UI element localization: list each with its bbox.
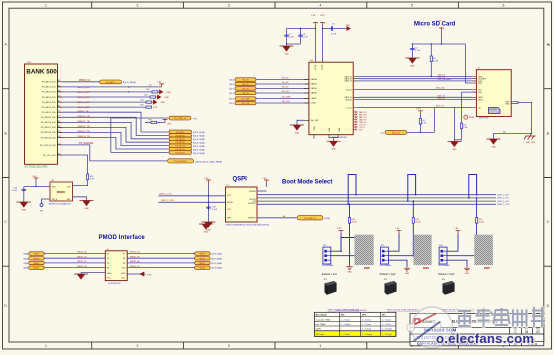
svg-text:P10: P10 [122, 268, 125, 270]
svg-text:SD_D0: SD_D0 [282, 78, 289, 80]
svg-text:2 - 3 (high): 2 - 3 (high) [362, 334, 372, 336]
wire JP3 pin3 to gnd [447, 260, 467, 266]
svg-text:DAT1A: DAT1A [311, 83, 318, 86]
svg-text:PS_MIO14: PS_MIO14 [176, 149, 185, 151]
svg-text:1.8V: 1.8V [337, 228, 342, 230]
svg-text:3: 3 [228, 344, 230, 348]
svg-text:PMOD_D1: PMOD_D1 [77, 256, 88, 258]
jumper photo 1 [324, 279, 337, 295]
svg-text:SI/IO0: SI/IO0 [227, 202, 234, 204]
svg-text:GND: GND [339, 127, 341, 132]
svg-text:E[4:1], R[4A]: E[4:1], R[4A] [193, 142, 205, 145]
svg-text:MICROSD: MICROSD [479, 118, 489, 120]
svg-text:1.8V: 1.8V [311, 15, 316, 17]
IC U4 right pin stubs [353, 77, 358, 108]
SD card icon [479, 108, 500, 120]
svg-text:1.8V: 1.8V [454, 228, 459, 230]
power 1.8V QSPI left [204, 178, 211, 222]
svg-text:Default = high: Default = high [438, 272, 455, 276]
svg-text:Default = low: Default = low [322, 272, 337, 276]
port ovals PMOD right [195, 252, 211, 270]
wire decoupling rail [287, 28, 316, 30]
svg-text:1 - 2 (low): 1 - 2 (low) [341, 319, 351, 321]
svg-text:E[4:1], R[4A]: E[4:1], R[4A] [193, 135, 205, 138]
svg-text:SHNT_ECON_PVBF-1(A),BLACK: SHNT_ECON_PVBF-1(A),BLACK [336, 309, 368, 312]
svg-text:PS_MIO4_500: PS_MIO4_500 [42, 102, 56, 104]
IC U4 left pin stubs [304, 80, 309, 121]
resistor R4 [419, 119, 427, 134]
svg-text:SD_CMD: SD_CMD [242, 99, 251, 101]
svg-text:DAT3A: DAT3A [311, 92, 318, 95]
wire stair bundle MIO9..MIO14 [62, 112, 169, 149]
svg-text:SD_D0: SD_D0 [242, 80, 248, 82]
svg-text:0.1uF: 0.1uF [212, 209, 218, 211]
net labels SD1 [436, 75, 452, 108]
IC U4 bottom GND stubs [314, 135, 341, 151]
IC U2 oscillator DSC1033 [49, 180, 73, 206]
net labels SD A-side [282, 78, 291, 104]
svg-text:E[4:1], R[4A]: E[4:1], R[4A] [193, 148, 205, 151]
wire JP3 pin2 to block [447, 255, 477, 257]
port sheet refs blue [193, 131, 205, 155]
svg-text:o.elecfans.com: o.elecfans.com [436, 331, 534, 346]
svg-text:MIO3 | QSPI: MIO3 | QSPI [78, 97, 91, 99]
svg-text:SD1_CD: SD1_CD [436, 106, 444, 108]
svg-text:P2: P2 [107, 258, 109, 260]
svg-text:Mod: Mod [536, 329, 540, 331]
svg-text:MIO13: MIO13 [200, 254, 206, 256]
svg-text:GND: GND [329, 127, 331, 132]
svg-text:GND: GND [410, 66, 415, 68]
svg-text:1.8V: 1.8V [395, 228, 400, 230]
IC U4 NC pin labels [359, 111, 367, 132]
svg-text:P4: P4 [107, 268, 109, 270]
svg-text:PS_SRST_B: PS_SRST_B [174, 118, 186, 120]
port PS_SRST_B oval [169, 116, 198, 120]
svg-text:SHD_GND: SHD_GND [526, 142, 536, 144]
svg-text:SD_D2: SD_D2 [282, 87, 289, 89]
capacitor C8 [298, 28, 308, 44]
svg-text:PEC03SAAN: PEC03SAAN [322, 264, 334, 267]
connector J1 left pin stubs [472, 77, 477, 108]
svg-text:PS_MIO12: PS_MIO12 [176, 142, 185, 144]
svg-text:PS_CLK_500: PS_CLK_500 [43, 155, 56, 157]
wire JP1 pin2 to block [331, 255, 355, 257]
svg-text:PWR: PWR [469, 117, 475, 119]
svg-text:0.1uF: 0.1uF [303, 37, 309, 39]
wire J1 VSS to gnd bundle [454, 92, 476, 140]
wire PS_CLK [62, 155, 88, 174]
svg-text:MIO15: MIO15 [200, 263, 206, 265]
wire bus QSPI/MIO line3 [257, 200, 496, 202]
svg-text:1.8V: 1.8V [157, 82, 162, 84]
svg-text:E[4:1]: E[4:1] [229, 93, 234, 95]
svg-text:RESET#: RESET# [248, 218, 257, 220]
svg-text:PMOD_D0: PMOD_D0 [77, 252, 88, 254]
wire PS_POR_B / PS_MODULE [62, 143, 167, 161]
svg-text:B7: B7 [58, 101, 60, 103]
svg-text:PMOD_D4: PMOD_D4 [130, 252, 141, 254]
IC U1 BANK 500 (Zynq PS MIO bank) [25, 62, 58, 169]
boot circuit 3 drop wire [476, 197, 478, 217]
wire MIO2 row with pulldown to GND [62, 89, 172, 94]
svg-text:CLK_B: CLK_B [346, 89, 353, 91]
svg-text:SD_CLK: SD_CLK [282, 101, 290, 103]
svg-text:PS_MIO5_500: PS_MIO5_500 [42, 107, 56, 109]
svg-text:E[4:1], R[4A]: E[4:1], R[4A] [193, 138, 205, 141]
wire osc MR / testpoint [40, 199, 50, 213]
power 1.8V oscillator supply [24, 176, 50, 187]
capacitor C30 [12, 187, 26, 203]
power 1.8V boot2 [388, 228, 401, 251]
ground J1 VSS [448, 140, 462, 151]
svg-text:VDD: VDD [478, 83, 483, 85]
wire bus QSPI/MIO line1 [257, 194, 496, 196]
svg-text:PS_MODULE: PS_MODULE [174, 161, 187, 163]
ground C2 [406, 58, 420, 68]
svg-text:QSPI_1_IO1: QSPI_1_IO1 [497, 198, 510, 200]
svg-text:S25FL128SAGNFI001 IS25LP128-: S25FL128SAGNFI001 IS25LP128-JBLE/QSPI4X [226, 223, 270, 226]
svg-text:PS_MIO0_500: PS_MIO0_500 [42, 82, 56, 84]
svg-text:2: 2 [137, 4, 139, 8]
port QSPI reset oval [297, 216, 330, 221]
svg-text:1.0K: 1.0K [422, 123, 427, 125]
wire VDD rail [412, 43, 472, 83]
svg-text:E[4:1]: E[4:1] [229, 99, 234, 101]
power 1.8V boot3 [447, 228, 460, 251]
svg-text:DNP: DNP [364, 266, 370, 270]
svg-text:3: 3 [228, 4, 230, 8]
svg-text:PS_MIO0: PS_MIO0 [106, 82, 116, 84]
port ovals PMOD left [29, 252, 45, 270]
svg-text:VCCA: VCCA [314, 64, 317, 70]
svg-text:PS_MIO14_500: PS_MIO14_500 [41, 137, 57, 139]
svg-text:4.7K: 4.7K [90, 178, 95, 180]
svg-text:ADM6315-29D4ARTZR7: ADM6315-29D4ARTZR7 [49, 203, 72, 206]
svg-text:E[4:1]: E[4:1] [229, 84, 234, 86]
shunt jumper block 2 (DNP) [414, 235, 432, 270]
svg-text:PMOD_D3: PMOD_D3 [77, 266, 88, 268]
svg-text:P8: P8 [123, 258, 125, 260]
svg-text:SD_CLK: SD_CLK [242, 103, 250, 105]
svg-text:VCCB: VCCB [322, 64, 324, 70]
IC U4 SEL wire to gnd [290, 120, 304, 134]
svg-text:E[4:1], R[4A]: E[4:1], R[4A] [193, 145, 205, 148]
svg-text:QSPI_1_CS0: QSPI_1_CS0 [161, 200, 174, 202]
svg-text:C8: C8 [58, 136, 60, 138]
ground PMOD left [74, 273, 105, 280]
svg-text:QSPI_1_IO2: QSPI_1_IO2 [497, 201, 510, 203]
svg-text:1 - 2 (low): 1 - 2 (low) [362, 329, 372, 331]
svg-text:GND: GND [405, 273, 410, 275]
wires U4 B-side to SD connector [358, 77, 472, 133]
svg-text:VDD/IO: VDD/IO [249, 191, 256, 193]
svg-text:1 - 2 (low): 1 - 2 (low) [362, 324, 372, 326]
IC U3 QSPI flash [226, 185, 270, 226]
svg-text:GND: GND [107, 273, 112, 275]
svg-text:4.7uF: 4.7uF [415, 50, 421, 52]
port refs PMOD right [212, 253, 223, 270]
wire bus QSPI/MIO line4 [257, 203, 496, 205]
wires PMOD left [44, 254, 105, 268]
testpoint TP2 oval [380, 130, 434, 134]
table text rows [316, 314, 387, 336]
svg-text:DAT0A: DAT0A [311, 78, 318, 81]
svg-text:R[4A]: R[4A] [24, 267, 29, 270]
wires PMOD right [127, 254, 194, 268]
resistor R20 [348, 218, 357, 256]
svg-text:PMOD_D6: PMOD_D6 [130, 261, 141, 263]
svg-text:QSPI: QSPI [316, 329, 322, 331]
svg-text:3.3V: 3.3V [320, 15, 325, 17]
svg-text:1 - 2 (low): 1 - 2 (low) [341, 334, 351, 336]
svg-text:20.0K: 20.0K [415, 221, 421, 223]
svg-text:R[2A]: R[2A] [325, 217, 330, 220]
svg-text:PMOD_D2: PMOD_D2 [77, 261, 88, 263]
svg-text:P3: P3 [107, 263, 109, 265]
IC U1 pin numbers [58, 80, 60, 155]
ground boot1 [346, 256, 352, 274]
port refs PMOD left [24, 253, 29, 270]
svg-text:1: 1 [45, 4, 47, 8]
svg-text:R[4A]: R[4A] [24, 257, 29, 260]
svg-text:1 - 2 (low): 1 - 2 (low) [382, 324, 392, 326]
ground boot2 [404, 266, 410, 275]
svg-text:DAT2_B: DAT2_B [344, 80, 352, 83]
svg-text:6: 6 [503, 4, 505, 8]
watermark hanzi glow [458, 307, 545, 328]
svg-text:Cascade JTAG: Cascade JTAG [316, 318, 331, 321]
svg-text:E[6:3], R[6A]: E[6:3], R[6A] [212, 253, 223, 256]
svg-text:1.8V: 1.8V [262, 178, 267, 180]
wire MIO5 row with pullup [62, 104, 158, 109]
svg-text:C6: C6 [58, 111, 60, 113]
svg-text:GND: GND [331, 149, 336, 151]
svg-text:GND: GND [161, 102, 166, 104]
resistor R7 pullup 1.8V [145, 119, 172, 125]
resistor R5 [454, 123, 468, 140]
svg-text:2 - 3 (high): 2 - 3 (high) [382, 329, 392, 331]
svg-text:QSPI_1_CLK: QSPI_1_CLK [159, 194, 172, 196]
svg-text:2 - 3 (high): 2 - 3 (high) [341, 324, 351, 326]
wire QSPI_1_CS0 [159, 200, 226, 202]
wire MIO0 row [62, 80, 100, 82]
svg-text:QSPI_1_IO3: QSPI_1_IO3 [497, 204, 510, 206]
svg-text:SD_CMD: SD_CMD [282, 97, 291, 99]
port sheet refs SD left [229, 80, 234, 106]
title text rows [416, 328, 479, 346]
svg-text:P7: P7 [123, 253, 125, 255]
svg-text:1: 1 [45, 344, 47, 348]
svg-text:1 - 2 (low): 1 - 2 (low) [362, 319, 372, 321]
svg-text:C5: C5 [58, 131, 60, 133]
svg-text:GND: GND [121, 273, 126, 275]
connector J1 micro SD [476, 68, 511, 117]
shunt jumper block 3 (DNP) [474, 235, 493, 270]
svg-text:E[6:3], R[6A]: E[6:3], R[6A] [212, 267, 223, 270]
wire hop 3 [468, 175, 477, 199]
svg-text:4: 4 [320, 344, 322, 348]
wire MIO4 row with pulldown to GND [62, 99, 166, 104]
svg-text:CMDA: CMDA [311, 97, 317, 100]
QSPI right VCC wire [257, 190, 267, 192]
svg-text:E[4:1], R[4A]: E[4:1], R[4A] [193, 152, 205, 155]
svg-text:1 - 2 (low): 1 - 2 (low) [382, 319, 392, 321]
svg-text:SD_D1: SD_D1 [282, 82, 289, 84]
capacitor C31 QSPI [206, 206, 218, 212]
svg-text:2: 2 [137, 344, 139, 348]
svg-text:PS_MIO2_500: PS_MIO2_500 [42, 92, 56, 94]
svg-text:GND: GND [165, 97, 170, 99]
ground top right of PMOD [199, 222, 213, 234]
net labels PMOD left [77, 252, 88, 268]
wire J1 GND return [494, 102, 533, 140]
svg-text:SD_D3: SD_D3 [242, 93, 248, 95]
svg-text:DM40: DM40 [57, 190, 65, 194]
svg-text:QSPI_1_IO0: QSPI_1_IO0 [497, 195, 510, 197]
capacitor C9 [323, 24, 346, 36]
svg-text:MIO5 | QSPI: MIO5 | QSPI [78, 107, 91, 109]
port PS_MIO0 oval [100, 80, 136, 84]
svg-text:DNP: DNP [423, 266, 429, 270]
boot circuit 2 drop wire [413, 200, 415, 217]
svg-text:20.0K: 20.0K [352, 221, 358, 223]
svg-text:PEC03SAAN: PEC03SAAN [438, 264, 450, 267]
svg-text:GND: GND [452, 149, 457, 151]
wire PS_SRST row [111, 118, 169, 152]
svg-text:PMOD Interface: PMOD Interface [99, 235, 146, 241]
svg-text:GND: GND [284, 54, 289, 56]
svg-text:GND: GND [295, 133, 300, 135]
svg-text:R[4A]: R[4A] [24, 262, 29, 265]
svg-text:E9: E9 [58, 126, 60, 128]
power 3.3V above level shifter [320, 15, 325, 62]
svg-text:GND: GND [505, 104, 510, 106]
svg-text:SD1_CLK: SD1_CLK [436, 88, 446, 90]
svg-text:5: 5 [411, 4, 413, 8]
svg-text:3.3V: 3.3V [416, 109, 421, 111]
svg-text:DAT1: DAT1 [478, 98, 483, 101]
svg-text:U1C: U1C [27, 62, 32, 64]
connector JP1 [322, 245, 334, 267]
svg-text:4: 4 [320, 4, 322, 8]
svg-text:E[4:1], R[4A]: E[4:1], R[4A] [123, 81, 136, 84]
svg-text:B8: B8 [58, 90, 60, 92]
port ovals SD A-side group1 [235, 78, 256, 95]
title block small cells [514, 330, 540, 334]
svg-text:CMD_B: CMD_B [345, 99, 352, 101]
svg-text:PMOD_D5: PMOD_D5 [130, 256, 141, 258]
ground osc [17, 202, 32, 212]
svg-text:D6: D6 [58, 95, 60, 97]
svg-text:GND: GND [167, 92, 172, 94]
ground QSPI cap [202, 222, 216, 232]
svg-text:E[6:3], R[6A]: E[6:3], R[6A] [212, 262, 223, 265]
svg-text:2 - 3 (high): 2 - 3 (high) [382, 334, 392, 336]
svg-text:3.3V: 3.3V [437, 21, 442, 23]
svg-text:MIO1 | QSPI: MIO1 | QSPI [78, 87, 91, 89]
wire bus QSPI/MIO line2 [257, 197, 496, 199]
svg-text:0.1uF: 0.1uF [289, 37, 295, 39]
svg-text:P1: P1 [107, 253, 109, 255]
svg-text:1.8V: 1.8V [167, 124, 172, 126]
svg-text:PS_SRST_B: PS_SRST_B [304, 218, 316, 220]
svg-text:20.0K: 20.0K [479, 221, 485, 223]
svg-text:PS_MIO9: PS_MIO9 [176, 132, 184, 134]
svg-text:E[4:1]: E[4:1] [229, 80, 234, 82]
wire MIO3 row with pulldown to GND [62, 94, 170, 99]
svg-text:GND: GND [84, 208, 89, 210]
svg-text:XC7Z020-1CLG400: XC7Z020-1CLG400 [25, 165, 48, 169]
svg-text:PS_MIO1_500: PS_MIO1_500 [42, 87, 56, 89]
jumper photo 2 [384, 279, 397, 295]
svg-text:Boot Mode: Boot Mode [316, 314, 328, 317]
svg-text:SD1_D2/CMD3: SD1_D2/CMD3 [438, 79, 453, 81]
svg-text:1.8V: 1.8V [147, 275, 152, 277]
svg-text:PS_MIO10: PS_MIO10 [176, 135, 185, 137]
svg-text:PS_MIO11: PS_MIO11 [176, 139, 185, 141]
svg-text:MIO14: MIO14 [200, 258, 206, 260]
svg-text:GND: GND [465, 273, 470, 275]
wires SD A-side to level shifter [256, 80, 309, 104]
IC U1 pin names [40, 82, 56, 157]
svg-text:PS_MODULE: PS_MODULE [79, 143, 94, 145]
resistor R22 [476, 218, 485, 256]
svg-text:C7: C7 [58, 143, 60, 145]
svg-text:A7: A7 [58, 84, 60, 87]
svg-text:PS_MIO15: PS_MIO15 [176, 152, 185, 154]
svg-text:MIO11: MIO11 [34, 263, 40, 265]
power PMOD right [127, 272, 152, 277]
ground J1 shield [487, 139, 501, 149]
svg-text:GND: GND [491, 147, 496, 149]
svg-text:Default = high: Default = high [380, 272, 397, 276]
title block [410, 314, 544, 346]
svg-text:B5: B5 [58, 121, 60, 123]
net label column MIO1-MIO4 [78, 87, 91, 109]
svg-text:E[4:1]: E[4:1] [229, 89, 234, 91]
svg-text:1.0K: 1.0K [463, 127, 468, 129]
svg-text:PS_MIO13: PS_MIO13 [176, 146, 185, 148]
svg-text:PS_POR_B_500: PS_POR_B_500 [40, 145, 56, 147]
resistor R21 [412, 218, 421, 256]
power 1.8V above level shifter [311, 15, 318, 62]
resistor R2 pullup on CMD [430, 44, 439, 77]
svg-text:E7: E7 [58, 153, 60, 155]
net label column MIO9-MIO14 [78, 111, 91, 138]
svg-text:PS_MIO12_500: PS_MIO12_500 [41, 127, 57, 129]
logo AVNET [414, 318, 499, 324]
wire hop 1 [347, 175, 356, 206]
svg-text:GND: GND [67, 199, 72, 201]
svg-text:Micro SD Card: Micro SD Card [414, 22, 456, 28]
power flag R4 [416, 109, 423, 119]
IC U4 level shifter [309, 60, 353, 139]
svg-text:IO3/SCK: IO3/SCK [248, 203, 257, 205]
svg-text:MIO10: MIO10 [34, 258, 40, 260]
svg-text:1.8V: 1.8V [32, 176, 37, 178]
svg-text:MIO4 | QSPI: MIO4 | QSPI [78, 102, 91, 104]
wire osc OUT stub [73, 185, 76, 187]
svg-text:SD_D3: SD_D3 [282, 91, 289, 93]
power 1.8V boot1 [331, 228, 343, 251]
chassis ground [524, 134, 536, 145]
QSPI reset wire to port [257, 215, 297, 218]
connector JP3 [438, 245, 450, 267]
svg-text:MIO2 | QSPI: MIO2 | QSPI [78, 92, 91, 94]
svg-text:PEC03SAAN: PEC03SAAN [380, 264, 392, 267]
svg-text:SEL_MM: SEL_MM [311, 120, 319, 122]
